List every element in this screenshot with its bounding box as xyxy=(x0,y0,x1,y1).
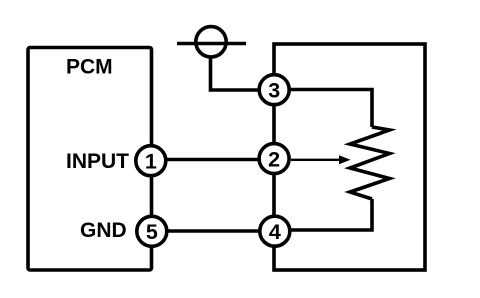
svg-text:PCM: PCM xyxy=(66,56,113,79)
svg-text:INPUT: INPUT xyxy=(66,150,129,173)
PCM module box xyxy=(28,48,152,271)
terminal 5 xyxy=(137,216,167,246)
wire source vertical drop xyxy=(211,59,261,91)
svg-text:4: 4 xyxy=(269,220,281,244)
wiper arrow from node2 xyxy=(291,155,351,164)
wire node1 to node2 xyxy=(151,158,274,162)
wire resistor bottom to node4 xyxy=(274,199,372,230)
wire node3 to resistor top xyxy=(274,90,372,128)
svg-text:5: 5 xyxy=(146,220,158,244)
resistor R (sensor element) xyxy=(350,127,390,199)
svg-text:2: 2 xyxy=(268,147,280,171)
svg-text:3: 3 xyxy=(268,79,280,103)
terminal 1 xyxy=(136,146,166,176)
wire node5 to node4 xyxy=(152,229,274,233)
power feed symbol xyxy=(177,27,246,57)
sensor box xyxy=(274,44,425,270)
svg-text:GND: GND xyxy=(80,219,127,242)
terminal 4 xyxy=(260,216,290,246)
terminal 3 xyxy=(259,75,289,105)
svg-text:1: 1 xyxy=(145,150,157,174)
terminal 2 xyxy=(259,144,289,174)
